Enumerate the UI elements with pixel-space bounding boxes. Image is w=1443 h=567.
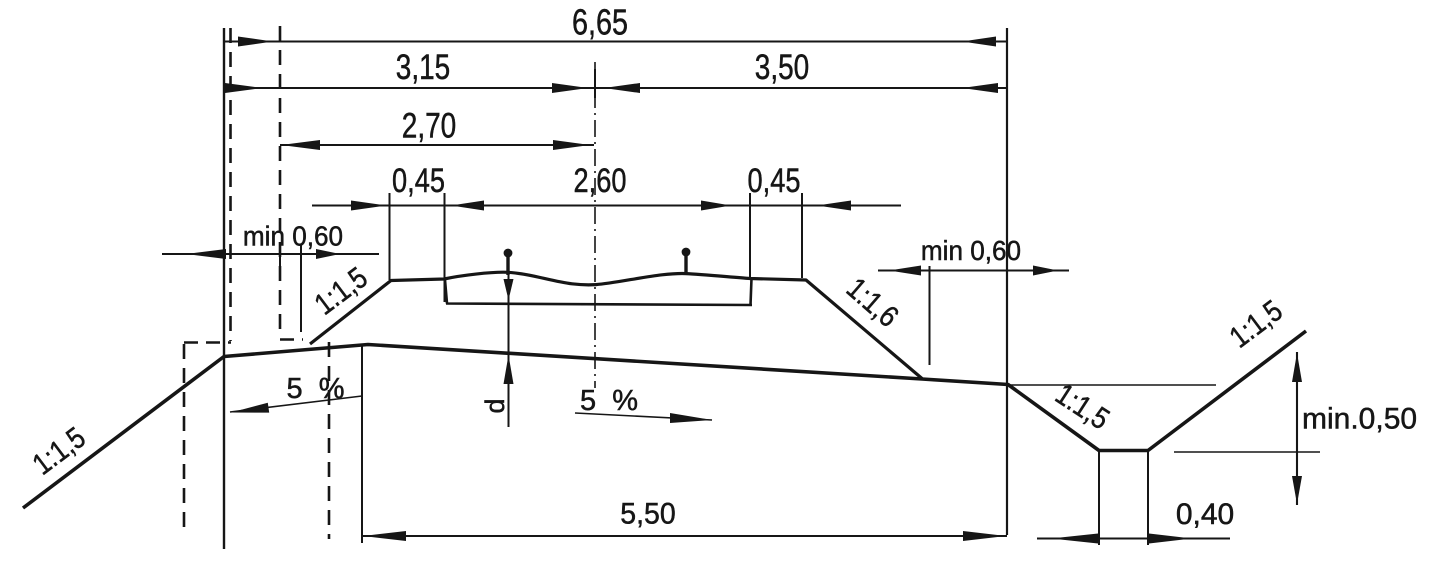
- extension line x=750: [749, 193, 751, 278]
- svg-text:0,45: 0,45: [748, 161, 801, 200]
- arrow 6,65 left: [238, 37, 273, 47]
- arrow 2,70 right: [553, 140, 590, 150]
- arrow 0,40 right: [1149, 534, 1192, 544]
- 0,40 dimension line: [1037, 537, 1230, 539]
- svg-text:1:1,5: 1:1,5: [1223, 293, 1288, 354]
- min 0,60 right extension x=929: [929, 266, 931, 365]
- right rail dot: [682, 248, 691, 257]
- arrow 3,50 left (at centreline): [604, 83, 640, 93]
- svg-text:6,65: 6,65: [572, 1, 628, 42]
- left reference vertical (solid): [223, 28, 225, 549]
- arrow 5% centre: [670, 413, 712, 423]
- 5% centre annotation line: [575, 413, 712, 420]
- dashed vertical x=329: [328, 342, 331, 539]
- svg-text:min 0,60: min 0,60: [243, 221, 343, 252]
- tick x=280 on min 0,60 line: [279, 245, 281, 267]
- 5,50 extension x=362: [361, 346, 363, 543]
- arrow min 0,60 right outward right: [1033, 266, 1058, 276]
- svg-text:3,15: 3,15: [396, 47, 450, 87]
- dashed corner foot of x=280 line: [280, 338, 303, 341]
- left rail mark: [506, 257, 509, 275]
- 5% left annotation line: [230, 396, 362, 412]
- dashed vertical x=280: [279, 26, 282, 338]
- arrow min.0,50 down: [1292, 476, 1302, 504]
- arrow 3,15 left: [225, 83, 263, 93]
- arrow 2,60 right: [701, 201, 731, 211]
- svg-text:5 %: 5 %: [580, 385, 642, 417]
- svg-text:0,40: 0,40: [1176, 498, 1234, 531]
- min.0,50 vertical dimension line: [1296, 352, 1298, 505]
- sleeper box (bottom of ballast bed): [445, 279, 752, 306]
- dimension line 0,45 / 2,60 / 0,45: [312, 204, 901, 206]
- arrow 0,45 right outside: [817, 201, 851, 211]
- left dashed vertical (track edge): [229, 28, 232, 341]
- arrow p down: [504, 279, 514, 300]
- arrow 0,45 left outside: [351, 201, 386, 211]
- svg-text:5 %: 5 %: [287, 373, 349, 405]
- min 0,60 left extension x=301: [300, 245, 302, 332]
- left rail dot: [504, 249, 513, 258]
- svg-text:p: p: [484, 398, 514, 413]
- centerline (dash-dot) x=595: [594, 62, 596, 388]
- arrow 5,50 left: [363, 531, 406, 541]
- svg-text:1:1,5: 1:1,5: [26, 420, 91, 481]
- svg-text:2,70: 2,70: [402, 105, 456, 145]
- arrow 3,50 right: [962, 83, 998, 93]
- p dimension vertical line: [508, 258, 510, 427]
- arrow min 0,60 left inner: [316, 249, 340, 259]
- ditch extension x=1148: [1147, 452, 1149, 545]
- svg-text:5,50: 5,50: [620, 498, 675, 531]
- dimension line 3,15 / 3,50: [224, 87, 1007, 89]
- ditch bottom reference line: [1174, 451, 1320, 453]
- centerline tick on 3,15 line: [594, 69, 596, 98]
- dimension line 6,65: [224, 40, 1007, 42]
- dashed horizontal step y=342: [184, 341, 231, 344]
- arrow p up: [504, 355, 514, 384]
- min 0,60 left dimension line: [162, 253, 379, 255]
- arrow min 0,60 right outward left: [889, 266, 921, 276]
- dashed vertical x=184: [183, 344, 186, 531]
- extension line x=389: [389, 193, 391, 280]
- right reference vertical (solid) x=1007: [1006, 28, 1008, 535]
- arrow 0,40 left: [1051, 534, 1098, 544]
- right rail mark: [684, 256, 687, 275]
- arrow 6,65 right: [962, 37, 996, 47]
- min 0,60 right dimension line: [878, 269, 1069, 271]
- ground level reference line right: [1007, 384, 1216, 386]
- svg-text:min.0,50: min.0,50: [1302, 403, 1417, 436]
- arrow min 0,60 left outward: [186, 249, 226, 259]
- 5,50 dimension line: [362, 535, 1007, 537]
- arrow 2,70 left: [281, 140, 320, 150]
- svg-text:1:1,5: 1:1,5: [1050, 377, 1116, 436]
- svg-text:3,50: 3,50: [755, 47, 809, 87]
- arrow 2,60 left: [451, 201, 484, 211]
- extension line x=802: [801, 193, 803, 278]
- svg-text:0,45: 0,45: [392, 161, 445, 200]
- svg-text:2,60: 2,60: [574, 161, 627, 200]
- arrow 5% left: [231, 403, 269, 413]
- arrow 3,15 right (at centreline): [552, 83, 588, 93]
- natural ground / subgrade profile: [23, 331, 1306, 508]
- dimension line 2,70: [280, 144, 594, 146]
- arrow min.0,50 up: [1292, 353, 1302, 382]
- extension line x=445: [444, 193, 446, 302]
- ditch extension x=1099: [1098, 452, 1100, 545]
- svg-text:min 0,60: min 0,60: [921, 235, 1021, 266]
- svg-text:1:1,6: 1:1,6: [840, 271, 905, 333]
- ballast embankment outline: [310, 272, 922, 378]
- arrow 5,50 right: [963, 531, 1006, 541]
- svg-text:1:1,5: 1:1,5: [308, 260, 373, 321]
